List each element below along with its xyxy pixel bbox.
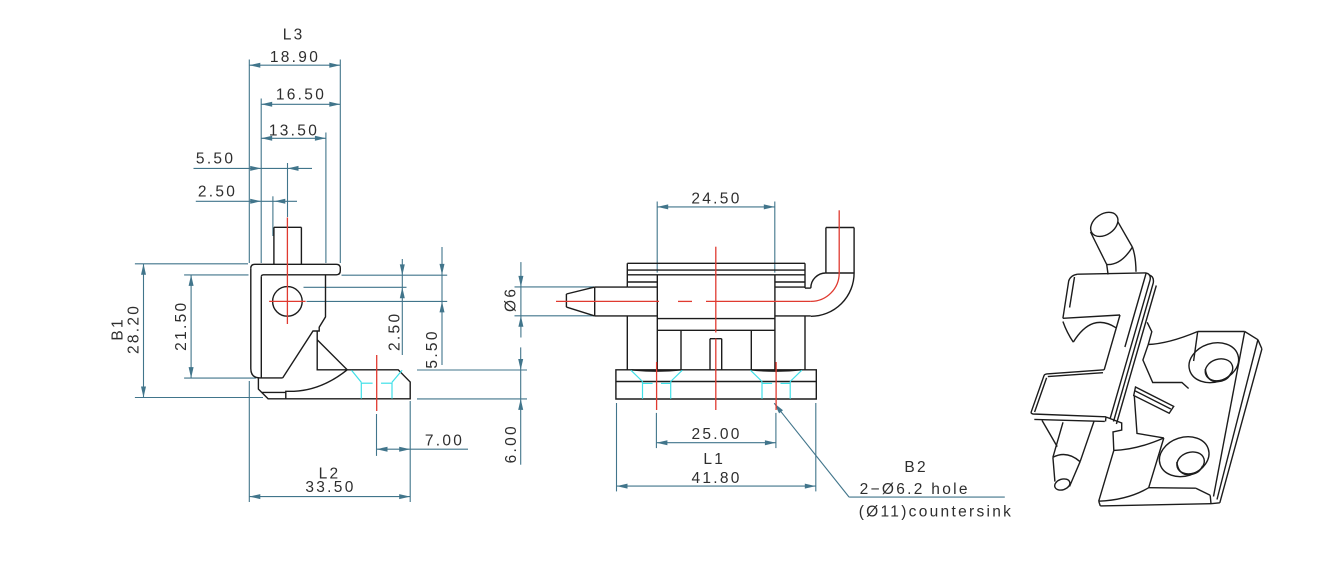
iso base plate top edge (1198, 331, 1245, 333)
svg-text:6.00: 6.00 (503, 424, 520, 463)
extension line plate-bottom (342, 274, 448, 276)
svg-text:(Ø11)countersink: (Ø11)countersink (859, 504, 1014, 521)
front view right column (775, 275, 805, 370)
extension line 33.50 left (248, 381, 250, 502)
iso upper plate left edge (1063, 274, 1078, 318)
iso hole upper (1184, 337, 1244, 389)
left view countersink section (352, 370, 403, 398)
extension line 21.50 bottom (184, 377, 256, 379)
iso mid-block upper step (1143, 344, 1189, 388)
left view inner edge (260, 277, 262, 378)
dimension 25.00 text (691, 426, 741, 443)
extension line 24.50 right (774, 202, 776, 273)
dimension B1 label (110, 317, 127, 341)
dimension 5.50 text (196, 151, 235, 168)
iso base plate bottom strip (1099, 488, 1211, 506)
svg-text:Ø6: Ø6 (502, 287, 519, 312)
front view countersink right (750, 370, 801, 399)
extension line hole-top (304, 286, 407, 288)
svg-text:2−Ø6.2 hole: 2−Ø6.2 hole (860, 481, 970, 498)
svg-text:B1: B1 (110, 317, 127, 341)
dimension 28.20 line (141, 264, 146, 398)
extension line foot-top (417, 369, 527, 371)
iso knuckle block edge (1147, 322, 1152, 344)
extension line 16.50 left (260, 99, 262, 264)
dimension 2.50 vertical line (400, 259, 405, 355)
front view cap (627, 263, 805, 288)
svg-text:2.50: 2.50 (198, 184, 237, 201)
left view outer edge (251, 268, 283, 378)
svg-text:28.20: 28.20 (126, 304, 143, 354)
svg-text:33.50: 33.50 (305, 479, 355, 496)
iso base upper scoop (1148, 332, 1198, 362)
dimension L2 label (319, 465, 341, 482)
svg-text:25.00: 25.00 (691, 426, 741, 443)
extension line 41.80 right (815, 403, 817, 491)
extension line 7.00 right (409, 401, 411, 502)
extension line 28.20 top (135, 263, 248, 265)
dimension 2.50 text (198, 184, 237, 201)
extension line 41.80 left (616, 403, 618, 491)
front view countersink left (631, 370, 682, 399)
extension line 18.90 right (339, 60, 341, 264)
front view bent pin (775, 228, 854, 317)
iso upper plate right edges (1110, 273, 1156, 424)
front view base plate (616, 370, 816, 399)
left view top plate (251, 264, 340, 277)
dimension 24.50 line (657, 204, 775, 209)
iso base lower scoop face (1099, 438, 1164, 501)
iso pin cylinder (1086, 207, 1132, 264)
extension line 28.20 bottom (135, 397, 263, 399)
svg-text:B2: B2 (904, 459, 928, 476)
dimension 5.50 vertical line (440, 247, 445, 365)
left view countersink centerline (376, 355, 378, 411)
dimension 2.50 line (196, 199, 297, 204)
front view left column (627, 275, 657, 370)
leader line countersink note (774, 403, 1005, 497)
svg-text:18.90: 18.90 (270, 49, 320, 66)
dimension 6.00 text (503, 424, 520, 463)
note hole spec line2 (859, 504, 1014, 521)
iso pin neck (1107, 247, 1136, 274)
iso base plate right edges (1214, 332, 1262, 503)
dimension L1 label (703, 451, 725, 468)
svg-text:2.50: 2.50 (387, 312, 404, 351)
extension line 25.00 right (775, 413, 777, 448)
iso u-bracket (1031, 370, 1106, 447)
front view hole centerline left (656, 362, 658, 410)
iso upper plate top edge (1078, 273, 1146, 274)
dimension 2.50 vertical text (387, 312, 404, 351)
dimension 28.20 text (126, 304, 143, 354)
extension line 13.50 right (325, 133, 327, 264)
dimension 7.00 line (377, 447, 469, 452)
dimension 18.90 text (270, 49, 320, 66)
dimension 7.00 text (425, 433, 464, 450)
iso mid-block lower edge (1134, 396, 1164, 438)
dimension 13.50 text (269, 123, 319, 140)
extension line pin-top (515, 286, 595, 288)
iso left notch step (1106, 417, 1122, 451)
dimension 33.50 text (305, 479, 355, 496)
dimension phi6 line (518, 262, 523, 337)
iso base plate bottom corner (1196, 488, 1220, 504)
dimension 16.50 text (276, 87, 326, 104)
left view right edge (283, 275, 326, 378)
front view base hole arcs (631, 370, 802, 371)
note hole spec line1 (860, 481, 970, 498)
left view tab (274, 227, 302, 264)
iso knuckle curl (1063, 322, 1116, 343)
svg-text:5.50: 5.50 (196, 151, 235, 168)
dimension 18.90 line (249, 63, 340, 68)
note B2 label (904, 459, 928, 476)
svg-text:L1: L1 (703, 451, 725, 468)
left view foot (258, 370, 410, 399)
iso hole lower (1154, 431, 1214, 483)
svg-text:7.00: 7.00 (425, 433, 464, 450)
extension line hole-center (307, 300, 448, 302)
dimension 33.50 line (249, 494, 410, 499)
extension line 18.90 left (248, 60, 250, 264)
front view hole centerline right (775, 362, 777, 410)
left view centerline horizontal (269, 300, 306, 302)
dimension 13.50 line (261, 136, 326, 141)
iso base plate corner chamfer (1245, 332, 1262, 349)
left view gusset triangle (317, 331, 347, 370)
dimension 41.80 text (691, 470, 741, 487)
svg-text:L3: L3 (283, 27, 305, 44)
dimension 25.00 line (656, 440, 776, 445)
dimension 41.80 line (617, 484, 816, 489)
svg-text:13.50: 13.50 (269, 123, 319, 140)
svg-text:41.80: 41.80 (691, 470, 741, 487)
left view foot scoop (262, 370, 347, 399)
extension line foot-bottom (417, 398, 527, 400)
dimension phi6 text (502, 287, 519, 312)
extension line 5.50 hole-center (287, 163, 289, 217)
front view tongue (710, 339, 722, 370)
front view pin centerline (556, 210, 839, 301)
left view hole (273, 287, 303, 317)
iso center rib (1134, 387, 1174, 413)
iso pin shaft (1053, 421, 1094, 462)
svg-text:5.50: 5.50 (424, 329, 441, 368)
extension line 2.50 tab-edge (272, 196, 274, 236)
svg-text:21.50: 21.50 (173, 301, 190, 351)
svg-text:24.50: 24.50 (691, 190, 741, 207)
iso knuckle barrel edge (1125, 273, 1146, 347)
extension line 7.00 left (376, 414, 378, 456)
dimension 21.50 text (173, 301, 190, 351)
dimension L3 label (283, 27, 305, 44)
dimension 24.50 text (691, 190, 741, 207)
dimension 6.00 line (518, 347, 523, 464)
extension line 21.50 top (184, 274, 248, 276)
svg-text:16.50: 16.50 (276, 87, 326, 104)
front view pin left (566, 287, 657, 316)
front view center centerline (715, 247, 717, 410)
dimension 21.50 line (189, 275, 194, 378)
iso plate window (1063, 315, 1120, 370)
dimension 5.50 line (194, 166, 313, 171)
extension line 25.00 left (655, 413, 657, 448)
extension line 24.50 left (656, 202, 658, 273)
left view centerline vertical (286, 218, 288, 325)
dimension 5.50 vertical text (424, 329, 441, 368)
front view body (657, 319, 775, 370)
iso pin cone (1053, 457, 1080, 492)
dimension 16.50 line (261, 102, 340, 107)
extension line pin-bottom (515, 315, 595, 317)
